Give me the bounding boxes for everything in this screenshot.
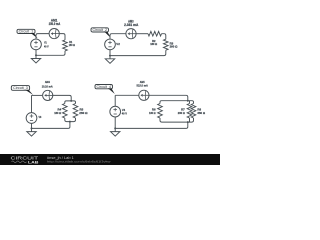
label box Circuit_2 with arrow — [91, 28, 111, 38]
svg-text:260 Ω: 260 Ω — [170, 45, 178, 49]
svg-text:260 Ω: 260 Ω — [178, 111, 185, 115]
svg-text:515.0 mA: 515.0 mA — [137, 84, 149, 88]
svg-text:10.10 mA: 10.10 mA — [42, 84, 54, 88]
resistor R6 zigzag — [158, 104, 163, 119]
wire ammeter to R1 top — [59, 34, 65, 40]
resistor R7 zigzag — [187, 104, 192, 119]
svg-text:V3: V3 — [39, 115, 42, 119]
svg-text:260 Ω: 260 Ω — [79, 111, 88, 115]
resistor R5 zigzag — [73, 104, 78, 119]
ground C4 — [111, 128, 120, 136]
label box Circuit_3 with arrow — [11, 86, 33, 95]
junction loop bottom C4 — [187, 121, 189, 123]
junction loop top C3 — [70, 100, 72, 102]
wire V1 top lead to ammeter — [36, 34, 49, 40]
ammeter AM3 — [126, 29, 136, 39]
svg-text:160 Ω: 160 Ω — [150, 42, 157, 46]
wire V3 bottom lead — [31, 123, 33, 128]
label box Circuit_4 with arrow — [95, 85, 115, 95]
ground C3 — [27, 128, 36, 136]
wire V2 top lead to ammeter — [110, 34, 126, 40]
svg-text:http://circuitlab.com/c6sb6c61: http://circuitlab.com/c6sb6c61l3vkw — [47, 159, 112, 163]
junction node C2 bottom — [109, 55, 111, 57]
wire R1 bottom to junction — [36, 51, 65, 55]
ground C2 — [105, 56, 114, 64]
resistor R8 zigzag — [191, 104, 196, 119]
junction node C1 bottom — [35, 54, 37, 56]
junction node C4 bottom — [114, 127, 116, 129]
wire loop bottom C4 — [160, 118, 194, 122]
footer bar — [0, 154, 220, 165]
resistor R3 zigzag — [164, 39, 169, 50]
voltage source V2 — [105, 39, 116, 50]
voltage source V3 — [26, 113, 37, 124]
junction node C3 bottom — [31, 127, 33, 129]
wire V4 top lead — [114, 95, 116, 106]
svg-text:40 V: 40 V — [122, 111, 127, 115]
wire V2 bottom lead — [109, 50, 111, 56]
ground C1 — [31, 55, 40, 63]
wire R3 bottom to junction — [110, 50, 166, 55]
wire V3 top lead — [31, 95, 33, 113]
svg-text:160 Ω: 160 Ω — [149, 111, 156, 115]
junction loop bottom C3 — [69, 121, 71, 123]
wire R7 bottom lead — [189, 118, 191, 122]
label box Circuit_1 with arrow — [17, 29, 38, 38]
wire R2 to R3 top corner — [162, 34, 166, 40]
svg-text:Circuit_3: Circuit_3 — [13, 86, 28, 90]
ammeter AM4 — [43, 90, 53, 100]
svg-text:V2: V2 — [116, 42, 120, 46]
wire loop bottom C3 — [65, 118, 76, 122]
wire V1 bottom lead — [35, 50, 37, 56]
wire ammeter to loop top C3 — [52, 95, 71, 101]
resistor R1 zigzag — [63, 40, 68, 51]
junction loop top C4 — [187, 100, 189, 102]
wire V4 bottom lead — [114, 117, 116, 129]
wire ammeter to loop top C4 — [149, 95, 188, 100]
svg-text:2.381 mA: 2.381 mA — [124, 23, 139, 27]
wire corner to ammeter C3 — [32, 94, 43, 96]
wire loop top C3 — [65, 101, 76, 104]
resistor R4 zigzag — [63, 104, 68, 119]
voltage source V4 — [110, 106, 121, 117]
ammeter AM1 — [49, 28, 59, 38]
wire corner to ammeter C4 — [115, 94, 139, 96]
svg-text:250.0 mA: 250.0 mA — [49, 22, 61, 26]
wire stem to bottom C4 — [115, 122, 188, 128]
wire stem to bottom C3 — [32, 122, 70, 129]
svg-text:LAB: LAB — [28, 159, 39, 164]
wire loop top C4 — [160, 101, 194, 104]
wire R7 top lead — [189, 101, 191, 104]
svg-text:160 Ω: 160 Ω — [54, 111, 61, 115]
resistor R2 zigzag horizontal — [148, 31, 162, 36]
wire ammeter to R2 — [136, 33, 148, 35]
svg-text:40 V: 40 V — [44, 44, 49, 48]
svg-text:Circuit_4: Circuit_4 — [97, 85, 112, 89]
svg-text:160 Ω: 160 Ω — [69, 43, 76, 47]
svg-text:Circuit_2: Circuit_2 — [93, 28, 108, 32]
CircuitLab logo wave — [12, 161, 27, 163]
voltage source V1 — [31, 39, 42, 50]
ammeter AM5 — [139, 90, 149, 100]
svg-text:360 Ω: 360 Ω — [197, 111, 205, 115]
